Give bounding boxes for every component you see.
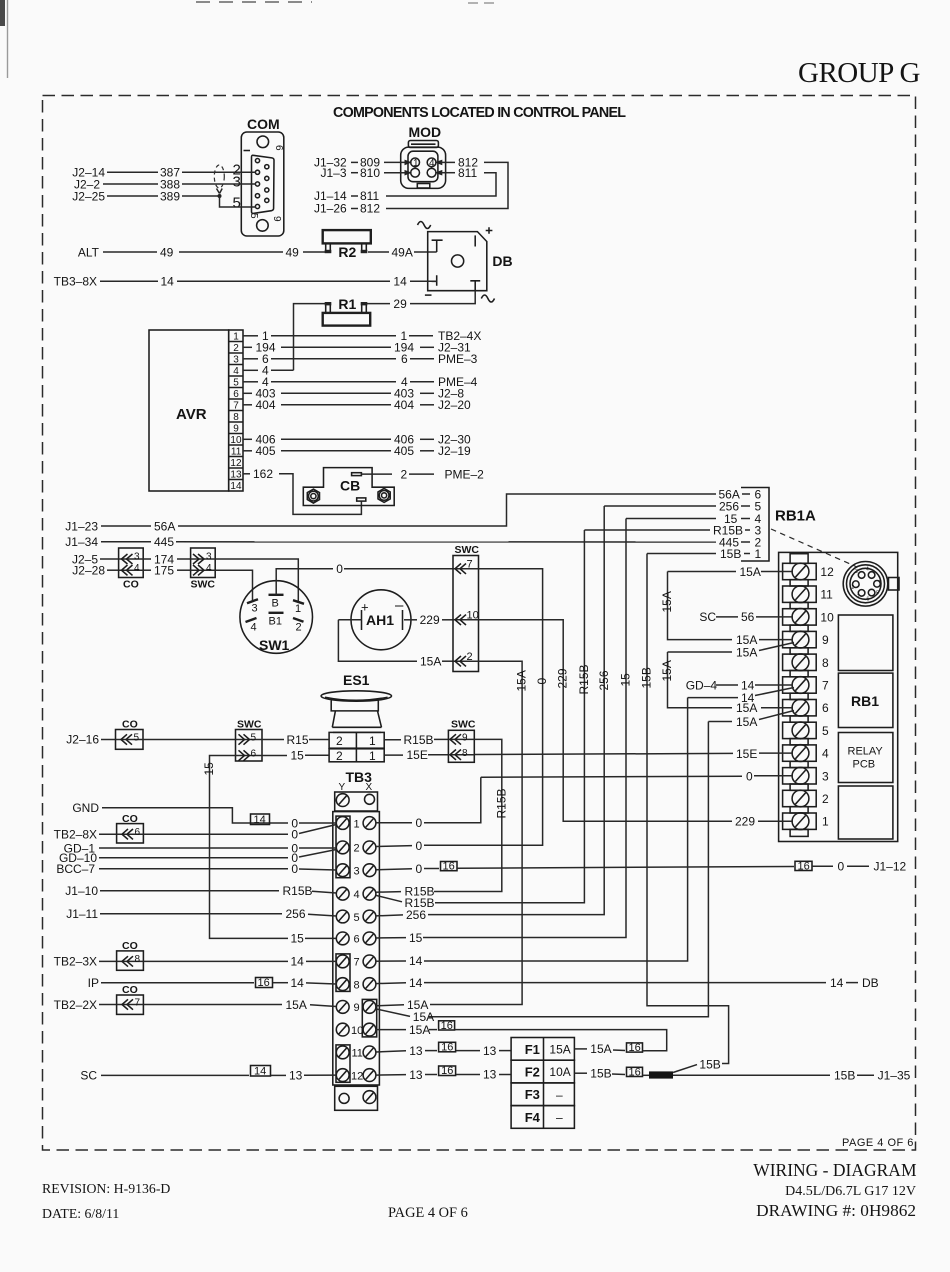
svg-text:J1–10: J1–10 [65, 884, 98, 898]
RB1 terminal 10 [783, 609, 817, 625]
wire ES1 to R15B to SWC9 [384, 739, 401, 741]
svg-text:0: 0 [416, 862, 423, 876]
resistor R2 [323, 230, 371, 243]
svg-text:14: 14 [161, 275, 175, 289]
svg-text:F1: F1 [525, 1042, 540, 1057]
svg-text:1: 1 [233, 332, 239, 343]
bus 0 from SWC7 to TB3 X2 [425, 569, 543, 846]
svg-text:56A: 56A [154, 519, 175, 533]
svg-text:12: 12 [230, 458, 242, 469]
svg-text:1: 1 [295, 603, 301, 615]
svg-text:R15B: R15B [404, 733, 434, 747]
diode block DB body [428, 232, 487, 291]
RB1 relay pcb box [838, 733, 893, 783]
splice marker 16 [441, 862, 458, 871]
svg-text:389: 389 [160, 190, 180, 204]
svg-text:J1–23: J1–23 [65, 519, 98, 533]
CB right mounting screw [378, 488, 390, 502]
wire CO5 to SWC5 [143, 739, 236, 741]
svg-text:0: 0 [838, 859, 845, 873]
TB3 row 3 [336, 864, 349, 877]
TB3 row 5 [336, 910, 349, 923]
svg-text:J1–35: J1–35 [878, 1069, 911, 1083]
wire 15A (t6 second) to TB3 X9 [708, 721, 732, 723]
svg-text:7: 7 [233, 401, 239, 412]
svg-text:9: 9 [233, 424, 239, 435]
svg-text:RB1A: RB1A [775, 508, 816, 525]
svg-text:SWC: SWC [237, 719, 262, 731]
svg-text:8: 8 [462, 748, 468, 759]
DB - terminal bottom-right [470, 281, 480, 291]
RB1 round connector [843, 562, 888, 607]
connector MOD bottom tab [417, 184, 430, 189]
svg-text:3: 3 [855, 569, 858, 575]
svg-text:15A: 15A [736, 645, 757, 659]
TB3 row 6 [336, 932, 349, 945]
svg-text:9: 9 [822, 633, 829, 647]
CB top terminal tab [352, 473, 362, 476]
svg-text:15A: 15A [549, 1042, 570, 1056]
svg-text:SWC: SWC [191, 579, 216, 591]
splice marker 16 on IP wire [256, 978, 273, 988]
splice marker 16 [439, 1021, 455, 1030]
svg-text:15A: 15A [660, 591, 674, 612]
svg-text:SW1: SW1 [259, 637, 290, 653]
wire 389 drop to pin 5 [220, 196, 257, 207]
TB3 row 7 [336, 955, 349, 968]
wire ES1 to 15E to SWC8 [384, 754, 403, 756]
connector MOD top tab [408, 141, 438, 148]
svg-text:4: 4 [251, 622, 257, 634]
svg-text:15B: 15B [834, 1069, 855, 1083]
svg-text:7: 7 [354, 957, 360, 969]
svg-text:15: 15 [202, 762, 216, 776]
svg-text:16: 16 [258, 977, 270, 989]
svg-text:15: 15 [409, 931, 423, 945]
svg-text:1: 1 [822, 815, 829, 829]
AVR row 1 wire to TB2-4X [243, 335, 258, 337]
dashed link RB1A to round connector [771, 529, 857, 567]
svg-text:811: 811 [458, 166, 477, 180]
svg-text:6: 6 [401, 352, 408, 366]
svg-text:7: 7 [857, 595, 860, 601]
svg-text:8: 8 [354, 979, 360, 991]
wire R15B from SWC9 down to TB3 X4 [434, 739, 502, 891]
svg-text:12: 12 [820, 565, 834, 579]
svg-text:15A: 15A [660, 660, 674, 681]
svg-text:14: 14 [254, 1066, 266, 1078]
wire SWC6 to 15 to ES1 [262, 755, 287, 757]
svg-text:4: 4 [822, 747, 829, 761]
svg-text:15: 15 [619, 673, 633, 687]
svg-text:15A: 15A [590, 1042, 611, 1056]
svg-text:15B: 15B [720, 547, 741, 561]
svg-text:4: 4 [134, 563, 140, 574]
bus 15B from RB1A-1 to splice [647, 554, 729, 1064]
svg-text:R2: R2 [338, 244, 356, 260]
svg-text:13: 13 [409, 1068, 423, 1082]
wire TB3 X10 15A to F1 [376, 1029, 406, 1031]
wire TB3 X1 0 up to t3 [376, 822, 412, 824]
svg-text:6: 6 [354, 934, 360, 946]
DB AC terminal bottom-left [432, 275, 437, 286]
svg-text:14: 14 [291, 976, 305, 990]
svg-text:11: 11 [231, 447, 242, 458]
wire SW1-B to 0 to SWC7 [276, 569, 333, 595]
svg-text:R15B: R15B [495, 788, 509, 818]
wire TB2-8X 0 to Y1 [143, 833, 288, 835]
svg-text:GROUP G: GROUP G [798, 57, 920, 89]
AVR row 13 wire 162 to CB [243, 473, 250, 475]
svg-text:16: 16 [441, 1065, 453, 1077]
svg-text:4: 4 [866, 567, 869, 573]
connector SWC (3/4) [191, 548, 216, 578]
svg-text:ES1: ES1 [343, 672, 370, 688]
wire R2 to 49A to DB [368, 251, 389, 253]
svg-text:15E: 15E [407, 748, 428, 762]
svg-text:3: 3 [822, 769, 829, 783]
TB3 row 11 [336, 1046, 349, 1059]
DB plus sign [486, 227, 493, 234]
svg-text:14: 14 [393, 275, 407, 289]
wire MOD pin3 to 811 [435, 170, 443, 176]
svg-text:J1–26: J1–26 [314, 202, 347, 216]
svg-text:15A: 15A [736, 715, 757, 729]
svg-text:WIRING - DIAGRAM: WIRING - DIAGRAM [753, 1160, 917, 1180]
svg-text:229: 229 [735, 815, 755, 829]
DB tilde bottom-right [481, 295, 494, 302]
svg-text:J1–3: J1–3 [321, 166, 347, 180]
svg-text:J2–20: J2–20 [438, 398, 471, 412]
AVR row 6 wire to J2-8 [243, 392, 252, 394]
RB1 terminal 9 [783, 631, 817, 647]
svg-text:7: 7 [822, 679, 829, 693]
svg-text:10A: 10A [549, 1065, 570, 1079]
wire TB3 X12 13 to F2 [376, 1074, 406, 1077]
svg-text:12: 12 [351, 1070, 363, 1082]
wire SWC3 to SW1 pin 1 [215, 559, 298, 601]
RB1 terminal 3 [783, 768, 817, 784]
svg-text:812: 812 [360, 202, 380, 216]
svg-text:GD–4: GD–4 [686, 678, 718, 692]
svg-text:J1–11: J1–11 [66, 907, 98, 921]
DB tilde top-left [418, 222, 431, 229]
svg-text:15: 15 [291, 932, 305, 946]
svg-text:B1: B1 [269, 616, 282, 628]
SW1 terminal 1 [293, 600, 304, 604]
connector COM D-sub face [252, 155, 275, 213]
AVR row 2 wire to J2-31 [243, 346, 252, 348]
svg-text:GND: GND [72, 801, 99, 815]
bus 15A from SWC2 to TB3 X9 [430, 661, 522, 1004]
svg-text:229: 229 [420, 613, 440, 627]
svg-text:1: 1 [413, 158, 419, 169]
svg-text:2: 2 [296, 622, 302, 634]
svg-text:6: 6 [135, 827, 141, 838]
svg-text:J1–12: J1–12 [874, 860, 907, 874]
svg-text:TB2–8X: TB2–8X [54, 828, 97, 842]
svg-text:SC: SC [699, 610, 716, 624]
RB1 sub board blank lower [838, 786, 893, 839]
splice marker 16 [795, 861, 812, 870]
svg-text:SWC: SWC [455, 544, 480, 556]
svg-text:R15B: R15B [713, 523, 743, 537]
wire 175 CO to SWC [143, 569, 151, 571]
DB + terminal [474, 235, 476, 246]
horn AH1 [351, 590, 411, 650]
svg-text:16: 16 [629, 1066, 641, 1078]
wire TB2-2X 15A to Y9 [143, 1004, 282, 1006]
ES1 mushroom cap [321, 691, 391, 701]
svg-text:DATE: 6/8/11: DATE: 6/8/11 [42, 1206, 119, 1221]
svg-text:404: 404 [256, 398, 276, 412]
svg-text:1: 1 [879, 577, 882, 583]
TB3 body [333, 812, 380, 1085]
AVR row 3 wire to PME-3 [243, 358, 258, 360]
connector COM body [241, 132, 283, 236]
DB AC terminal top-left [432, 240, 443, 252]
wire TB3 X4b R15B diagonal [376, 895, 402, 901]
CB left mounting screw [307, 489, 319, 503]
wire 0 to t3 [481, 776, 742, 777]
wire TB3 X4 R15B [376, 891, 401, 894]
RB1 sub board blank upper [838, 615, 893, 671]
svg-text:3: 3 [233, 355, 239, 366]
wire TB3 X9b 15A diagonal [376, 1009, 410, 1017]
svg-text:J2–25: J2–25 [72, 190, 105, 204]
svg-text:0: 0 [416, 816, 423, 830]
svg-text:29: 29 [393, 297, 407, 311]
svg-text:10: 10 [351, 1025, 363, 1037]
svg-text:4: 4 [233, 366, 239, 377]
MOD pin 2 [411, 168, 420, 177]
svg-text:14: 14 [254, 814, 266, 826]
SW1 terminal 3 [247, 599, 258, 603]
svg-text:9: 9 [462, 732, 468, 743]
regulator AVR body [149, 330, 229, 491]
ES1 contact block upper [329, 732, 384, 748]
svg-text:11: 11 [820, 588, 833, 602]
AVR pin column [229, 330, 243, 491]
wire F1 15A to X10 link [574, 1048, 587, 1050]
RB1 terminal 11 [783, 586, 817, 602]
svg-text:DB: DB [492, 253, 512, 269]
wire 15 vertical TB3 Y6 to SWC6 [210, 756, 289, 939]
RB1 terminal 4 [783, 745, 817, 761]
svg-text:PCB: PCB [853, 759, 876, 771]
DB minus sign [425, 294, 432, 296]
splice marker 14 on SC wire [251, 1066, 271, 1077]
TB3 row 1 [336, 817, 349, 830]
svg-text:13: 13 [409, 1044, 423, 1058]
scan artifact top-left corner [0, 0, 5, 26]
wire TB3 X6 15 [376, 937, 406, 939]
svg-text:5: 5 [251, 733, 257, 744]
svg-text:PAGE 4 OF 6: PAGE 4 OF 6 [388, 1205, 468, 1221]
TB3 row 12 [336, 1069, 349, 1082]
svg-text:PME–2: PME–2 [445, 467, 485, 481]
RB1 terminal 6 [783, 700, 817, 716]
svg-text:16: 16 [629, 1042, 641, 1054]
connector SWC (7/10/2) [453, 556, 479, 672]
wire SWC5 to R15 to ES1 [262, 739, 284, 741]
svg-text:CO: CO [122, 984, 138, 996]
key switch SW1 [240, 581, 313, 654]
svg-text:49: 49 [160, 245, 174, 259]
fuse block F2 [511, 1060, 574, 1083]
relay board RB1 outline [779, 552, 898, 841]
svg-text:R1: R1 [338, 296, 356, 312]
wire SWC4 to SW1 pin 3 [215, 570, 252, 601]
svg-text:15A: 15A [286, 998, 307, 1012]
svg-text:2: 2 [336, 734, 343, 748]
svg-text:229: 229 [556, 668, 570, 688]
SW1 terminal B1 [269, 612, 284, 614]
wire splice to 15B label [673, 1065, 697, 1073]
svg-text:CO: CO [123, 579, 139, 591]
svg-text:J1–34: J1–34 [65, 535, 98, 549]
svg-text:DRAWING #: 0H9862: DRAWING #: 0H9862 [756, 1201, 916, 1220]
svg-text:SWC: SWC [451, 719, 476, 731]
bus 256 from RB1A-5 to TB3 X5 [428, 506, 604, 915]
svg-text:TB3–8X: TB3–8X [54, 275, 97, 289]
svg-text:J2–28: J2–28 [72, 564, 105, 578]
svg-text:1: 1 [755, 547, 762, 561]
svg-text:16: 16 [441, 1042, 453, 1054]
svg-text:49: 49 [286, 245, 300, 259]
svg-text:15A: 15A [740, 565, 761, 579]
svg-text:ALT: ALT [78, 245, 100, 259]
svg-text:5: 5 [822, 724, 829, 738]
svg-text:3: 3 [233, 174, 241, 191]
wire 174 CO to SWC [143, 558, 151, 560]
svg-text:0: 0 [746, 769, 753, 783]
svg-text:15B: 15B [590, 1066, 611, 1080]
svg-text:SC: SC [80, 1069, 97, 1083]
svg-text:TB2–3X: TB2–3X [54, 955, 97, 969]
splice marker 14 on GND wire [251, 814, 270, 825]
svg-text:14: 14 [830, 976, 844, 990]
TB3 bracket X9-X10 [362, 999, 376, 1037]
svg-text:810: 810 [360, 166, 380, 180]
RB1 sub board label box [838, 673, 893, 727]
svg-text:AVR: AVR [176, 406, 207, 423]
svg-text:PME–3: PME–3 [438, 352, 478, 366]
svg-text:6: 6 [867, 597, 870, 603]
svg-text:7: 7 [467, 559, 473, 571]
svg-text:15B: 15B [699, 1057, 720, 1071]
RB1 terminal 12 [783, 563, 817, 579]
svg-text:2: 2 [467, 651, 473, 663]
wire 14 (t7 second) [688, 697, 738, 699]
twisted-pair marker (dashed ellipse) [214, 165, 224, 188]
AVR row 7 wire to J2-20 [243, 404, 252, 406]
RB1A row 5 (256) [604, 505, 716, 507]
splice marker 16 [439, 1042, 456, 1052]
TB3 row 4 [336, 887, 349, 900]
RB1 terminal 5 [783, 722, 817, 738]
svg-text:J2–16: J2–16 [66, 733, 99, 747]
fuse block F4 [511, 1106, 574, 1129]
wire TB3 X8 14 to DB [376, 982, 406, 985]
wire TB3 X9 15A [376, 1005, 404, 1006]
svg-text:3: 3 [252, 603, 258, 615]
svg-text:1: 1 [354, 818, 360, 830]
svg-text:F4: F4 [525, 1110, 541, 1125]
svg-text:COMPONENTS LOCATED IN CONTROL: COMPONENTS LOCATED IN CONTROL PANEL [333, 105, 626, 121]
fuse block F1 [511, 1038, 574, 1061]
ES1 stem [332, 711, 381, 733]
TB3 top pad [335, 792, 378, 811]
svg-text:405: 405 [256, 444, 276, 458]
svg-text:9: 9 [271, 216, 282, 222]
svg-text:3: 3 [354, 866, 360, 878]
wire MOD pin4 to 812 [435, 160, 443, 166]
TB3 bracket Y7-Y8 [336, 954, 350, 992]
svg-text:CO: CO [122, 719, 138, 731]
wire AH1 to 229 to SWC10 [404, 619, 417, 621]
svg-text:BCC–7: BCC–7 [56, 862, 95, 876]
svg-text:10: 10 [230, 435, 242, 446]
svg-text:CB: CB [340, 478, 360, 494]
wire CB to 2 to PME-2 [361, 473, 392, 475]
wire 15E to t4 [474, 753, 733, 754]
svg-text:MOD: MOD [409, 124, 442, 140]
svg-text:J2–19: J2–19 [438, 444, 471, 458]
svg-text:1: 1 [369, 749, 376, 763]
svg-text:D4.5L/D6.7L G17 12V: D4.5L/D6.7L G17 12V [785, 1184, 916, 1199]
svg-text:–: – [556, 1088, 563, 1102]
svg-text:R15B: R15B [577, 664, 591, 694]
TB3 row 8 [336, 978, 349, 991]
svg-text:0: 0 [291, 828, 298, 842]
svg-text:15A: 15A [409, 1023, 430, 1037]
svg-text:10: 10 [467, 610, 479, 622]
svg-text:2: 2 [354, 843, 360, 855]
RB1 terminal 8 [783, 654, 817, 670]
svg-text:IP: IP [88, 976, 99, 990]
RB1 terminal 7 [783, 677, 817, 693]
SW1 terminal 2 [293, 618, 304, 622]
COM pins [255, 159, 259, 163]
svg-text:0: 0 [535, 678, 549, 685]
svg-text:DB: DB [862, 976, 879, 990]
svg-text:5: 5 [354, 912, 360, 924]
RB1 terminal 2 [783, 790, 817, 806]
wire TB3 X11 13 to F1 [376, 1051, 406, 1052]
svg-text:2: 2 [822, 792, 829, 806]
wire TB3 X3 0 to J1-12 [376, 869, 412, 870]
wire TB2-3X 14 to Y7 [143, 960, 288, 962]
svg-text:13: 13 [230, 470, 242, 481]
svg-text:9: 9 [354, 1002, 360, 1014]
svg-text:256: 256 [406, 908, 426, 922]
svg-text:4: 4 [206, 563, 212, 574]
bus R15B from RB1A-3 to TB3 X4b [435, 530, 584, 903]
svg-text:15B: 15B [640, 667, 654, 688]
svg-text:1: 1 [369, 734, 376, 748]
TB3 row 10 [336, 1023, 349, 1036]
svg-text:16: 16 [441, 1020, 453, 1032]
MOD pin 1 [411, 158, 420, 167]
svg-text:6: 6 [273, 145, 284, 151]
splice block (solid) [649, 1071, 673, 1078]
svg-text:4: 4 [354, 889, 360, 901]
AVR row 11 wire to J2-19 [243, 450, 252, 452]
svg-text:COM: COM [247, 116, 280, 132]
wire 15A loop t9 to t6 [668, 651, 733, 653]
TB3 bottom pad [335, 1086, 378, 1110]
